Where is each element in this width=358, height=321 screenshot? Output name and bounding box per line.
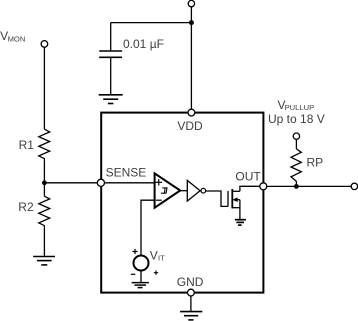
transistor Q1 gate bar [227, 191, 229, 206]
pin GND [188, 289, 195, 296]
pin VDD [188, 109, 195, 116]
wire junction to capacitor [111, 22, 192, 24]
ground below GND [180, 312, 202, 320]
minus sign VIT bottom [131, 273, 136, 275]
wire to capacitor top plate [110, 23, 112, 51]
capacitor C1 plates [99, 51, 122, 57]
wire node A to SENSE [44, 182, 97, 184]
svg-text:MON: MON [8, 35, 26, 44]
op-amp U1 comparator [155, 173, 181, 207]
resistor R2 [39, 196, 50, 228]
pin OUT [260, 183, 267, 190]
wire comparator minus to VIT [141, 200, 155, 255]
svg-text:R2: R2 [18, 200, 34, 214]
wire source to ground [239, 200, 241, 220]
transistor Q1 body stub [237, 199, 240, 201]
svg-text:GND: GND [177, 275, 204, 289]
wire capacitor to ground [110, 57, 112, 95]
node A junction dot [42, 180, 47, 185]
transistor Q1 body arrow [232, 197, 237, 202]
svg-text:SENSE: SENSE [106, 165, 147, 179]
junction dot RP [294, 184, 299, 189]
ground below Q1 [235, 220, 246, 225]
plus sign VIT top [132, 249, 137, 254]
transistor Q1 drain stub [232, 190, 240, 192]
svg-text:0.01 µF: 0.01 µF [123, 37, 164, 51]
wire VMON to R1 [43, 47, 45, 129]
wire VPULLUP to RP [295, 139, 297, 149]
small plus sign right of VIT [154, 271, 158, 275]
svg-text:Up to 18 V: Up to 18 V [268, 112, 325, 126]
wire comparator to buffer [180, 190, 187, 192]
svg-text:RP: RP [307, 156, 324, 170]
terminal VMON [41, 41, 48, 48]
svg-text:R1: R1 [19, 138, 35, 152]
voltage source VIT [134, 256, 149, 271]
ground below VIT [132, 283, 149, 288]
buffer inverter U2 [187, 180, 200, 201]
ground below R2 [33, 257, 55, 265]
wire top terminal to VDD pin [190, 7, 192, 109]
minus sign input [156, 199, 162, 201]
svg-text:OUT: OUT [235, 170, 261, 184]
terminal VPULLUP [293, 133, 299, 139]
terminal output right [351, 183, 357, 189]
wire GND to ground [190, 296, 192, 311]
transistor Q1 channel bar [231, 189, 233, 208]
wire drain to OUT [240, 186, 260, 191]
wire bubble to gate [206, 191, 228, 206]
transistor Q1 source stub [232, 207, 240, 209]
svg-text:V: V [150, 249, 158, 263]
label VPULLUP [278, 98, 315, 112]
wire SENSE to comparator [105, 182, 155, 184]
inverter bubble [201, 188, 206, 193]
label VIT [150, 249, 165, 263]
svg-text:VDD: VDD [177, 119, 203, 133]
pin SENSE [97, 179, 104, 186]
label VMON [0, 29, 25, 44]
ground below capacitor [99, 95, 123, 104]
wire R2 to ground [43, 228, 45, 257]
IC box [101, 113, 263, 293]
resistor RP [291, 149, 301, 187]
junction dot top [189, 20, 194, 25]
plus sign input [156, 179, 163, 185]
terminal top VDD supply [188, 0, 194, 6]
wire VIT to ground [140, 271, 142, 283]
svg-text:IT: IT [158, 254, 165, 263]
resistor R1 [39, 129, 50, 161]
wire OUT to right terminal [267, 185, 351, 187]
hysteresis symbol [161, 188, 168, 193]
wire R1 to R2 [43, 161, 45, 197]
